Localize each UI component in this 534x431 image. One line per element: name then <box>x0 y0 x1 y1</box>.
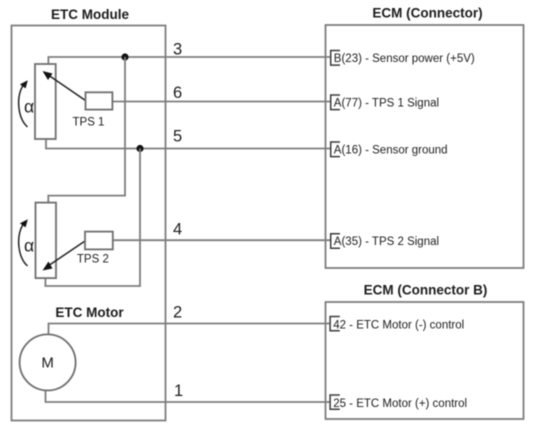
angle symbol alpha (TPS1): arc with arrow <box>19 80 34 127</box>
wire: pin 1 to 25 ETC motor (+) control <box>46 390 331 402</box>
node: junction on wire 5 <box>136 145 143 152</box>
angle symbol alpha (TPS2): arc with arrow <box>19 219 34 266</box>
potentiometer TPS2 body <box>36 203 57 279</box>
connector pin bracket A(77) <box>331 95 340 110</box>
svg-text:ETC Motor: ETC Motor <box>55 305 124 320</box>
connector pin bracket 25 <box>330 395 340 409</box>
svg-text:M: M <box>41 355 54 372</box>
box: ETC Module enclosure <box>12 26 166 421</box>
connector pin bracket A(16) <box>331 142 340 157</box>
svg-text:α: α <box>24 97 34 117</box>
wire: pin 4 to A(35) TPS 2 signal <box>113 239 331 241</box>
svg-text:A(16) - Sensor ground: A(16) - Sensor ground <box>334 145 448 157</box>
motor M1 circle <box>20 334 76 390</box>
svg-text:ECM (Connector B): ECM (Connector B) <box>364 283 488 298</box>
TPS1 pickup box <box>86 92 113 109</box>
potentiometer TPS1 body <box>35 64 56 139</box>
wiper arrow TPS2 <box>43 241 86 271</box>
connector pin bracket A(35) <box>331 234 340 249</box>
svg-text:ETC Module: ETC Module <box>51 7 129 22</box>
svg-text:A(77) - TPS 1 Signal: A(77) - TPS 1 Signal <box>334 97 439 109</box>
wire: pin 3 to B(23) sensor power <box>48 57 330 64</box>
wire: pin 6 to A(77) TPS 1 signal <box>112 101 330 103</box>
wire: sensor power branch to TPS2 top <box>48 57 125 203</box>
svg-text:TPS 2: TPS 2 <box>77 254 109 266</box>
connector pin bracket 42 <box>330 317 340 331</box>
TPS2 pickup box <box>85 232 113 250</box>
svg-text:TPS 1: TPS 1 <box>73 117 105 129</box>
wiper arrow TPS1 <box>43 71 86 101</box>
svg-text:B(23) - Sensor power (+5V): B(23) - Sensor power (+5V) <box>334 53 475 65</box>
svg-text:α: α <box>24 236 34 256</box>
wire: pin 5 to A(16) sensor ground <box>46 140 331 149</box>
box: ECM (Connector B) enclosure <box>326 302 524 419</box>
svg-text:ECM (Connector): ECM (Connector) <box>372 6 482 21</box>
svg-text:42 - ETC Motor (-) control: 42 - ETC Motor (-) control <box>333 320 464 332</box>
wire: sensor ground branch to TPS2 bottom <box>45 149 140 287</box>
node: junction on wire 3 <box>121 53 128 60</box>
svg-text:3: 3 <box>173 40 182 58</box>
svg-text:5: 5 <box>173 128 182 146</box>
svg-text:4: 4 <box>173 221 182 239</box>
svg-text:2: 2 <box>173 303 182 321</box>
svg-text:25 - ETC Motor (+) control: 25 - ETC Motor (+) control <box>333 398 467 410</box>
svg-text:A(35) - TPS 2 Signal: A(35) - TPS 2 Signal <box>334 236 439 248</box>
svg-text:1: 1 <box>174 382 183 400</box>
wire: pin 2 to 42 ETC motor (-) control <box>49 324 331 336</box>
box: ECM (Connector) enclosure <box>326 25 524 268</box>
connector pin bracket B(23) <box>331 51 340 66</box>
svg-text:6: 6 <box>173 84 182 102</box>
